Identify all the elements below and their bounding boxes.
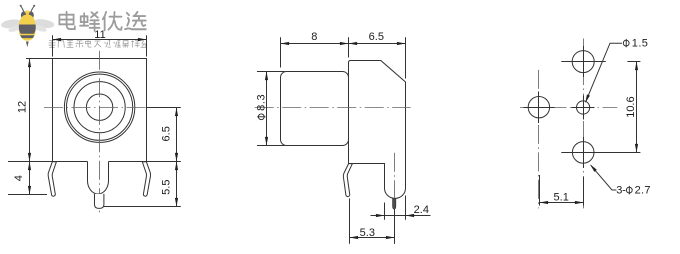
vertical center line through left hole (538, 70, 540, 209)
outer ring outer circle (64, 72, 134, 142)
svg-text:6.5: 6.5 (161, 126, 173, 141)
dim 4 line (29, 162, 31, 195)
bee dark thorax band (19, 25, 36, 34)
svg-text:8.3: 8.3 (255, 94, 267, 111)
svg-text:2.7: 2.7 (635, 185, 651, 197)
svg-text:6.5: 6.5 (369, 31, 384, 43)
svg-text:5.1: 5.1 (554, 191, 569, 203)
bee head yellow center (24, 11, 31, 20)
mounting leg (side) (343, 164, 352, 197)
left hole crosshair (524, 107, 555, 109)
center pin sleeve (U shape) (88, 162, 109, 194)
dim 5.1 extension lines (539, 175, 541, 206)
outer ring inner circle (67, 74, 133, 140)
dim 10.6 extension top (627, 61, 640, 63)
dim 8 line (281, 43, 349, 45)
left mounting leg (48, 162, 56, 196)
svg-text:8: 8 (311, 31, 317, 43)
extension line pin bottom (104, 206, 181, 208)
small watermark text row (49, 40, 147, 47)
horizontal center line through left+small holes (520, 107, 617, 109)
svg-text:12: 12 (16, 101, 28, 113)
top hole circle (572, 51, 594, 73)
bee left upper wing (1, 18, 23, 29)
bee right upper wing (32, 18, 55, 29)
body bottom edge right segment (109, 161, 147, 163)
svg-text:5.5: 5.5 (161, 180, 173, 195)
bee left antenna (21, 6, 24, 12)
center pin tip (95, 194, 104, 209)
bee stinger (26, 42, 29, 48)
svg-text:1.5: 1.5 (632, 38, 649, 50)
bee left lower wing (8, 24, 23, 33)
label phi1.5 (623, 40, 629, 46)
horizontal center line bottom hole + 10.6 extension (561, 152, 640, 154)
extension line center right (147, 107, 181, 109)
char 选 (125, 12, 146, 29)
svg-text:2.4: 2.4 (414, 204, 429, 216)
dim 2.4 line (371, 215, 431, 217)
char 优 (103, 12, 122, 30)
horizontal center line top hole (561, 61, 606, 63)
dim 8 extension line left (280, 37, 282, 67)
horizontal center line (255, 107, 411, 109)
barrel (round shell) (281, 72, 349, 146)
svg-text:10.6: 10.6 (625, 96, 637, 117)
char 蜂 (80, 12, 99, 31)
dim 11 line (53, 39, 147, 41)
svg-text:4: 4 (13, 175, 25, 181)
dim 5.5 line (176, 162, 178, 207)
dim phi8.3 extension lines (257, 71, 285, 73)
dim 6.5 line (349, 43, 406, 45)
bee left eye (21, 12, 26, 19)
dim 6.5 extension line right (405, 37, 407, 78)
extension line bottom right (147, 161, 181, 163)
small center hole circle (phi 1.5) (577, 101, 590, 114)
extension line square top-left (26, 58, 53, 60)
dim 5.1 line (540, 202, 584, 204)
phi1.5 leader line (586, 43, 622, 100)
extension line square bottom-left (8, 161, 53, 163)
inner circle (86, 94, 112, 120)
small hole crosshair (572, 107, 595, 109)
dim 6.5 line (176, 108, 178, 162)
dim 12 line (29, 59, 31, 162)
bottom hole circle (572, 142, 594, 164)
middle circle (74, 82, 125, 133)
body outline with chamfer and pin sleeve (349, 61, 406, 199)
dim 5.3 line (350, 237, 395, 239)
right mounting leg (142, 162, 150, 196)
extension line leg bottom left (8, 194, 47, 196)
dim phi8.3 line (266, 72, 268, 146)
bee right lower wing (33, 24, 48, 33)
char 电 (59, 12, 74, 29)
svg-text:3-: 3- (616, 185, 626, 197)
vertical center line through pin (394, 153, 396, 201)
dim 8/6.5 extension line middle (348, 37, 350, 57)
vertical center line through top/small/bottom holes (583, 39, 585, 209)
dim 5.3 extension line left (349, 199, 351, 244)
dim 11 extension lines (52, 35, 54, 56)
top hole crosshair vertical (583, 46, 585, 77)
vertical center line (99, 51, 101, 216)
center pin (side) (393, 198, 396, 209)
3-phi2.7 leader line (591, 165, 617, 190)
body bottom edge left segment (53, 161, 88, 163)
body square outline (53, 59, 147, 162)
bee body (thorax+abdomen) (19, 15, 36, 41)
svg-text:11: 11 (94, 29, 105, 41)
svg-text:5.3: 5.3 (360, 227, 375, 239)
bottom hole crosshair vertical (583, 137, 585, 168)
logo text 电蜂优选 (vector strokes) (59, 12, 145, 31)
horizontal center line (44, 107, 156, 109)
bee right antenna (31, 6, 34, 12)
dim 2.4 extension lines (384, 203, 386, 220)
bee right eye (29, 12, 34, 19)
dim 10.6 line (636, 62, 638, 153)
left hole circle (528, 97, 549, 118)
bee abdomen stripe (20, 35, 34, 38)
